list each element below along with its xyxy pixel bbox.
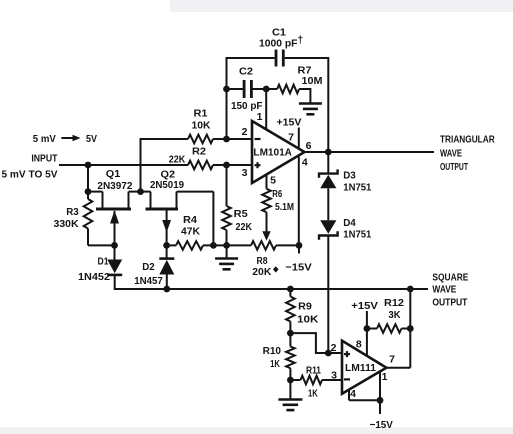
- svg-text:R8: R8: [257, 255, 268, 267]
- svg-text:SQUARE: SQUARE: [432, 271, 468, 283]
- svg-text:7: 7: [288, 131, 294, 143]
- svg-text:10K: 10K: [297, 314, 319, 326]
- svg-text:20K: 20K: [252, 266, 271, 278]
- svg-text:R4: R4: [183, 214, 197, 226]
- svg-text:4: 4: [350, 388, 356, 400]
- svg-text:LM101A: LM101A: [253, 147, 292, 158]
- svg-text:−15V: −15V: [285, 262, 312, 274]
- svg-text:1N452: 1N452: [78, 271, 110, 283]
- svg-text:OUTPUT: OUTPUT: [440, 161, 468, 173]
- svg-text:2N3972: 2N3972: [97, 180, 132, 192]
- svg-text:Q1: Q1: [106, 168, 121, 180]
- svg-text:R10: R10: [263, 345, 282, 357]
- svg-text:R6: R6: [272, 188, 282, 200]
- svg-text:R5: R5: [234, 208, 248, 220]
- svg-text:+15V: +15V: [277, 116, 302, 128]
- svg-text:3K: 3K: [389, 309, 401, 321]
- svg-text:8: 8: [356, 339, 362, 351]
- svg-text:4: 4: [302, 156, 308, 168]
- svg-text:10M: 10M: [302, 75, 323, 87]
- svg-text:6: 6: [306, 140, 312, 152]
- svg-text:R1: R1: [194, 107, 208, 119]
- svg-text:2: 2: [331, 342, 337, 354]
- svg-text:C2: C2: [239, 65, 253, 77]
- svg-text:D1: D1: [98, 255, 109, 267]
- svg-text:22K: 22K: [236, 221, 253, 233]
- svg-text:R11: R11: [306, 365, 321, 377]
- svg-text:WAVE: WAVE: [432, 284, 456, 296]
- svg-text:1N751: 1N751: [343, 182, 371, 194]
- svg-text:1: 1: [382, 371, 388, 383]
- svg-text:D3: D3: [343, 169, 356, 181]
- svg-text:22K: 22K: [169, 153, 186, 165]
- svg-text:R12: R12: [384, 297, 404, 309]
- svg-text:5V: 5V: [86, 133, 97, 145]
- svg-text:OUTPUT: OUTPUT: [432, 296, 467, 308]
- svg-text:TRIANGULAR: TRIANGULAR: [440, 133, 495, 145]
- svg-text:1N457: 1N457: [134, 275, 163, 287]
- svg-text:7: 7: [389, 353, 395, 365]
- svg-text:10K: 10K: [192, 119, 211, 131]
- svg-text:LM111: LM111: [345, 363, 376, 374]
- svg-text:R2: R2: [192, 145, 206, 157]
- svg-text:+15V: +15V: [351, 300, 378, 312]
- svg-text:3: 3: [331, 370, 337, 382]
- svg-text:2: 2: [242, 126, 248, 138]
- svg-text:WAVE: WAVE: [440, 147, 462, 159]
- svg-text:1K: 1K: [308, 387, 318, 399]
- svg-text:47K: 47K: [181, 225, 200, 237]
- svg-text:1K: 1K: [270, 358, 280, 370]
- svg-text:R3: R3: [66, 206, 79, 218]
- svg-text:5 mV: 5 mV: [33, 133, 56, 145]
- svg-text:1N751: 1N751: [343, 228, 371, 240]
- svg-text:†: †: [298, 35, 304, 46]
- svg-text:1: 1: [257, 111, 263, 123]
- svg-text:2N5019: 2N5019: [150, 179, 184, 191]
- svg-text:5: 5: [270, 174, 276, 186]
- svg-text:−15V: −15V: [370, 419, 393, 431]
- svg-text:5.1M: 5.1M: [275, 201, 294, 213]
- svg-text:R9: R9: [298, 301, 312, 313]
- svg-text:D2: D2: [142, 261, 155, 273]
- svg-text:3: 3: [242, 167, 248, 179]
- svg-text:INPUT: INPUT: [31, 153, 57, 165]
- svg-text:D4: D4: [343, 217, 356, 229]
- svg-text:5 mV TO 5V: 5 mV TO 5V: [2, 168, 58, 180]
- svg-text:330K: 330K: [54, 218, 79, 230]
- svg-text:1000 pF: 1000 pF: [259, 37, 298, 49]
